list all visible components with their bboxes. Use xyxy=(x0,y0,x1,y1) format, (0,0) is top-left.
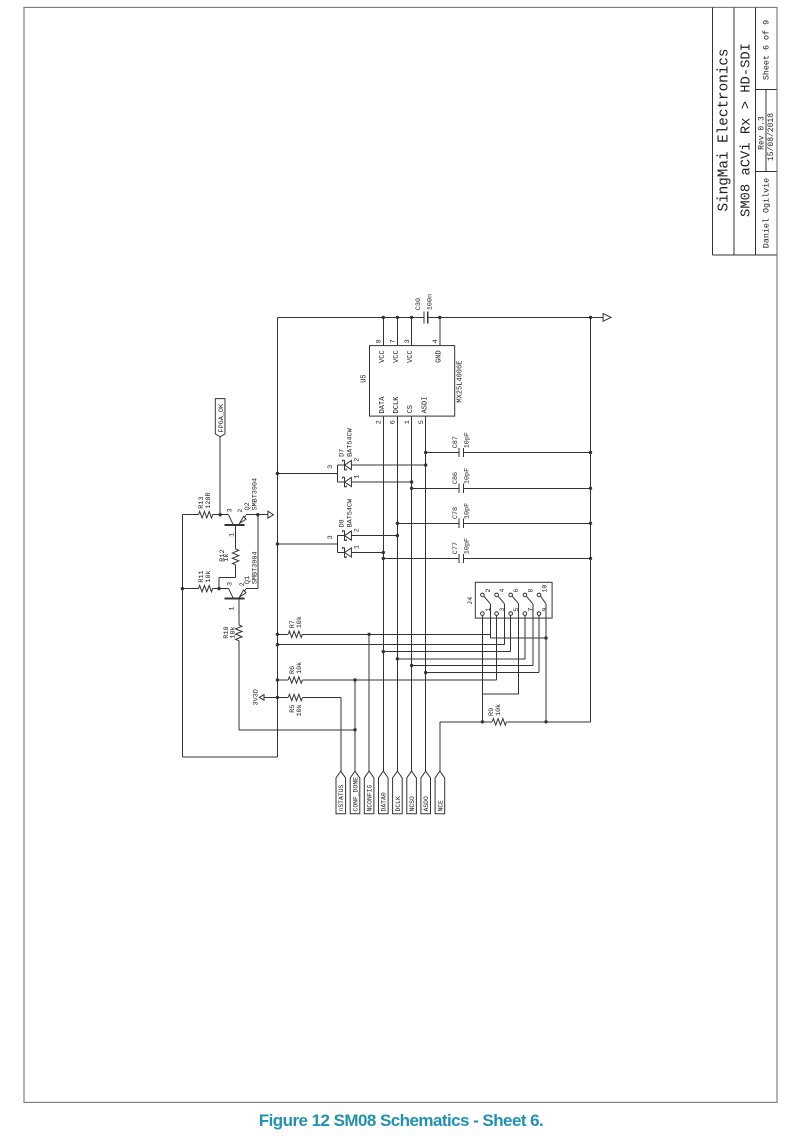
node ASDO bus junction xyxy=(424,671,427,674)
svg-text:6: 6 xyxy=(513,589,520,593)
svg-text:Sheet 6 of 9: Sheet 6 of 9 xyxy=(762,20,772,80)
wire net CONF_DONE vertical xyxy=(354,680,356,771)
wire 3V3D left rail xyxy=(276,317,278,757)
node C77 tap junction xyxy=(382,557,385,560)
resistor R10 xyxy=(223,625,242,730)
capacitor C87 xyxy=(452,432,472,457)
diode D7 BAT54CW xyxy=(277,427,361,486)
svg-text:U5: U5 xyxy=(361,374,369,382)
node Q1 base junction xyxy=(217,587,220,590)
svg-text:DCLK: DCLK xyxy=(395,796,402,812)
node C87 gnd junction xyxy=(589,451,592,454)
wire C78 left xyxy=(397,522,459,524)
wire GND right rail xyxy=(590,317,592,721)
wire net NCSO vertical xyxy=(411,416,413,771)
svg-text:C78: C78 xyxy=(452,507,460,519)
svg-text:GND: GND xyxy=(435,350,443,363)
svg-text:2: 2 xyxy=(354,458,362,462)
node C86 gnd junction xyxy=(589,487,592,490)
svg-text:DCLK: DCLK xyxy=(393,396,401,414)
wire net DCLK vertical xyxy=(396,416,398,771)
svg-text:NCONFIG: NCONFIG xyxy=(367,784,374,811)
flag CONF_DONE xyxy=(350,771,360,814)
svg-text:C30: C30 xyxy=(415,298,423,310)
node NCSO bus junction xyxy=(410,664,413,667)
svg-text:NCSO: NCSO xyxy=(409,796,416,812)
U5 pin 7 VCC xyxy=(390,317,401,363)
svg-text:2: 2 xyxy=(354,528,362,532)
title text Rev 0.3 xyxy=(758,116,767,150)
svg-text:SM08 aCVi Rx > HD-SDI: SM08 aCVi Rx > HD-SDI xyxy=(738,43,754,217)
svg-text:10: 10 xyxy=(541,585,548,593)
node C77 gnd junction xyxy=(589,557,592,560)
wire Q1 collector to R10 xyxy=(238,599,240,625)
svg-text:1: 1 xyxy=(229,607,237,611)
U5 pin 4 GND xyxy=(432,317,443,363)
node D8 pin2 junction xyxy=(396,534,399,537)
svg-text:15/08/2018: 15/08/2018 xyxy=(767,113,776,161)
svg-text:3: 3 xyxy=(327,535,335,539)
svg-text:BAT54CW: BAT54CW xyxy=(346,427,354,456)
title text Sheet 6 of 9 xyxy=(762,20,772,80)
node GND rail junction xyxy=(589,316,592,319)
wire far left vertical xyxy=(181,515,183,757)
IC U5 MX25L4006E body xyxy=(361,346,465,417)
node Q2 emitter junction xyxy=(256,513,259,516)
svg-text:10k: 10k xyxy=(205,570,213,582)
svg-text:4: 4 xyxy=(499,589,506,593)
svg-text:C77: C77 xyxy=(452,542,460,554)
svg-text:10pF: 10pF xyxy=(464,468,472,484)
node R7 rail junction xyxy=(276,633,279,636)
svg-text:5: 5 xyxy=(418,420,426,424)
wire J4 pin2 drop xyxy=(484,596,490,634)
resistor R13 xyxy=(182,492,228,518)
U5 pin 1 CS label xyxy=(404,405,415,424)
svg-text:1: 1 xyxy=(354,475,362,479)
node GND pin4 junction xyxy=(438,316,441,319)
wire J4 pin10 drop xyxy=(541,596,546,722)
svg-text:C86: C86 xyxy=(452,472,460,484)
node R10 CONF_DONE junction xyxy=(353,728,356,731)
svg-text:1: 1 xyxy=(354,545,362,549)
title text SM08 aCVi Rx > HD-SDI xyxy=(738,43,754,217)
node D8 pin3 junction xyxy=(276,542,279,545)
svg-text:3: 3 xyxy=(227,508,235,512)
node D8 pin1 junction xyxy=(382,551,385,554)
svg-text:SMBT3904: SMBT3904 xyxy=(252,478,260,511)
svg-text:MX25L4006E: MX25L4006E xyxy=(457,361,465,403)
node R6 CONF_DONE junction xyxy=(353,678,356,681)
node 3V3D bus junction xyxy=(276,643,279,646)
svg-text:VCC: VCC xyxy=(379,350,387,363)
resistor R9 xyxy=(440,704,591,725)
wire net NCE vertical xyxy=(439,722,441,771)
transistor Q1 SMBT3904 xyxy=(225,551,260,610)
title text date 15/08/2018 xyxy=(767,113,776,161)
wire DATA0 to J4 pin5 xyxy=(383,651,510,653)
flag nSTATUS xyxy=(336,771,346,814)
port FPGA_OK arrow xyxy=(268,511,274,518)
transistor Q2 SMBT3904 xyxy=(225,478,260,537)
svg-text:3V3D: 3V3D xyxy=(252,689,260,705)
wire J4 pin8 drop xyxy=(527,596,533,665)
svg-text:4: 4 xyxy=(432,339,440,343)
wire Q2 base to R12 xyxy=(235,525,237,549)
wire D8 pin2 to DCLK xyxy=(351,535,397,537)
wire D7 pin2 to ASDO xyxy=(351,464,425,466)
wire J4 pin5 drop xyxy=(510,616,512,652)
wire net nSTATUS vertical xyxy=(340,698,342,772)
svg-text:BAT54CW: BAT54CW xyxy=(346,498,354,527)
svg-text:SMBT3904: SMBT3904 xyxy=(252,551,260,584)
resistor R6 xyxy=(277,662,496,683)
svg-text:2: 2 xyxy=(376,420,384,424)
U5 pin 6 DCLK label xyxy=(390,396,401,424)
wire R10 to CONF_DONE xyxy=(239,729,355,731)
U5 pin 2 DATA label xyxy=(376,396,387,424)
svg-text:FPGA_OK: FPGA_OK xyxy=(218,403,226,432)
svg-text:7: 7 xyxy=(390,339,398,343)
wire J4 pin3 drop xyxy=(496,616,498,680)
wire C77 right xyxy=(464,557,591,559)
svg-text:1k: 1k xyxy=(223,554,231,562)
wire DCLK to J4 pin7 xyxy=(397,658,525,660)
wire C78 right xyxy=(464,522,591,524)
title text SingMai Electronics xyxy=(717,48,733,211)
svg-text:10k: 10k xyxy=(296,704,304,716)
wire C87 right xyxy=(464,452,591,454)
svg-text:3: 3 xyxy=(227,582,235,586)
svg-text:10pF: 10pF xyxy=(464,432,472,448)
svg-text:8: 8 xyxy=(376,339,384,343)
node DCLK bus junction xyxy=(396,657,399,660)
title block outline xyxy=(712,7,776,255)
node R7 NCONFIG junction xyxy=(367,633,370,636)
wire NCSO to J4 pin8 xyxy=(412,665,533,667)
svg-text:10k: 10k xyxy=(296,616,304,628)
svg-text:VCC: VCC xyxy=(393,350,401,363)
node R9 pin1 junction xyxy=(481,720,484,723)
svg-text:VCC: VCC xyxy=(407,350,415,363)
svg-text:nSTATUS: nSTATUS xyxy=(338,784,345,811)
node VCC pin7 junction xyxy=(396,316,399,319)
svg-text:NCE: NCE xyxy=(437,800,444,812)
capacitor C77 xyxy=(452,538,472,563)
flag DATA0 xyxy=(379,771,389,814)
wire pin2 jog xyxy=(490,634,546,638)
capacitor C30 xyxy=(415,294,435,324)
flag NCSO xyxy=(407,771,417,814)
svg-text:DATA: DATA xyxy=(379,396,387,414)
wire Q2 emitter xyxy=(246,514,268,516)
node C78 gnd junction xyxy=(589,522,592,525)
capacitor C78 xyxy=(452,503,472,528)
wire 3V3D to J4 pin4 xyxy=(277,644,504,646)
flag NCE xyxy=(435,771,445,814)
node VCC pin3 junction xyxy=(410,316,413,319)
svg-text:2: 2 xyxy=(485,589,492,593)
svg-text:6: 6 xyxy=(390,420,398,424)
node C78 tap junction xyxy=(396,522,399,525)
wire C86 left xyxy=(412,487,459,489)
wire net DATA0 vertical xyxy=(382,416,384,771)
wire net NCONFIG vertical xyxy=(368,634,370,771)
wire J4 pin6 drop xyxy=(512,596,518,694)
svg-text:DATA0: DATA0 xyxy=(381,792,388,811)
svg-text:CONF_DONE: CONF_DONE xyxy=(352,777,359,812)
power symbol 3V3D xyxy=(252,689,277,705)
node D7 pin1 junction xyxy=(410,480,413,483)
flag FPGA_OK xyxy=(215,399,226,437)
svg-text:10k: 10k xyxy=(229,626,237,638)
node DATA0 bus junction xyxy=(382,650,385,653)
svg-text:Daniel Ogilvie: Daniel Ogilvie xyxy=(762,178,772,248)
node C87 tap junction xyxy=(424,451,427,454)
flag NCONFIG xyxy=(364,771,374,814)
wire C86 right xyxy=(464,487,591,489)
wire FPGA_OK vertical xyxy=(219,437,221,515)
svg-text:10k: 10k xyxy=(495,704,503,716)
svg-text:SingMai Electronics: SingMai Electronics xyxy=(717,48,733,211)
node R11 left junction xyxy=(181,587,184,590)
wire Q2 to Q1 emitter xyxy=(246,515,258,589)
wire net ASDO vertical xyxy=(425,416,427,771)
wire ASDO to J4 pin9 xyxy=(426,672,539,674)
svg-text:10pF: 10pF xyxy=(464,503,472,519)
svg-text:1: 1 xyxy=(404,420,412,424)
node D7 pin2 junction xyxy=(424,463,427,466)
svg-text:3: 3 xyxy=(327,465,335,469)
wire C87 left xyxy=(426,452,459,454)
svg-text:J4: J4 xyxy=(467,597,475,605)
title text Daniel Ogilvie xyxy=(762,178,772,248)
svg-text:Rev 0.3: Rev 0.3 xyxy=(758,116,767,150)
flag ASDO xyxy=(421,771,431,814)
svg-text:CS: CS xyxy=(407,405,415,413)
wire D7 pin1 to NCSO xyxy=(351,481,411,483)
capacitor C86 xyxy=(452,468,472,493)
node D7 pin3 junction xyxy=(276,472,279,475)
svg-text:120R: 120R xyxy=(205,492,213,508)
U5 pin 5 ASDI label xyxy=(418,397,429,425)
svg-text:ASDO: ASDO xyxy=(423,796,430,812)
node FPGA_OK junction xyxy=(219,513,222,516)
flag DCLK xyxy=(393,771,403,814)
wire J4 pin4 drop xyxy=(498,596,504,644)
svg-text:Figure 12 SM08 Schematics - Sh: Figure 12 SM08 Schematics - Sheet 6. xyxy=(259,1111,543,1130)
svg-text:10pF: 10pF xyxy=(464,538,472,554)
svg-text:3: 3 xyxy=(404,339,412,343)
node VCC pin8 junction xyxy=(382,316,385,319)
wire J4 pin9 drop xyxy=(538,616,540,673)
wire 3V3D top rail xyxy=(277,316,603,318)
wire J4 pin1 to pin6 xyxy=(482,693,518,695)
node R9 pin10 junction xyxy=(544,720,547,723)
ground port arrow xyxy=(603,314,611,322)
svg-text:ASDI: ASDI xyxy=(421,397,429,414)
svg-text:100n: 100n xyxy=(427,294,435,310)
resistor R12 xyxy=(219,549,239,589)
U5 pin 3 VCC xyxy=(404,317,415,363)
resistor R11 xyxy=(182,570,228,591)
svg-text:8: 8 xyxy=(527,589,534,593)
diode D8 BAT54CW xyxy=(277,498,361,557)
node C86 tap junction xyxy=(410,487,413,490)
wire J4 pin7 drop xyxy=(524,616,526,659)
svg-text:9: 9 xyxy=(541,608,548,612)
wire J4 pin1 drop xyxy=(481,616,483,722)
svg-text:10k: 10k xyxy=(296,662,304,674)
node pin10 upper junction xyxy=(544,636,547,639)
resistor R5 xyxy=(277,694,340,716)
wire C77 left xyxy=(383,557,459,559)
svg-text:C87: C87 xyxy=(452,436,460,448)
resistor R7 xyxy=(277,616,490,637)
U5 pin 8 VCC xyxy=(376,317,387,363)
node R6 rail junction xyxy=(276,678,279,681)
wire bottom link xyxy=(182,756,277,758)
wire D8 pin1 to DATA0 xyxy=(351,552,383,554)
connector J4 header xyxy=(467,582,552,618)
node R5 rail junction xyxy=(276,696,279,699)
